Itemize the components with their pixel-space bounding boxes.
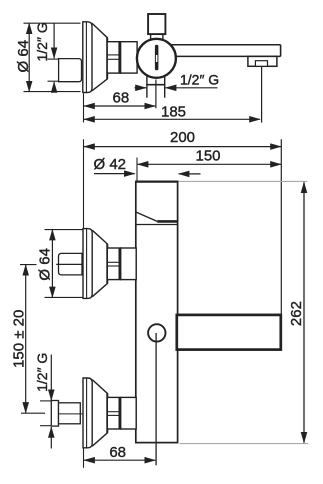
- svg-text:Ø 64: Ø 64: [36, 248, 53, 281]
- svg-text:150: 150: [195, 148, 220, 165]
- svg-text:1/2″ G: 1/2″ G: [34, 22, 50, 61]
- svg-text:Ø 64: Ø 64: [15, 40, 32, 73]
- svg-text:1/2″ G: 1/2″ G: [180, 72, 219, 88]
- svg-text:68: 68: [109, 444, 126, 461]
- svg-text:150 ± 20: 150 ± 20: [10, 310, 27, 368]
- svg-text:262: 262: [288, 301, 305, 326]
- svg-text:200: 200: [170, 129, 195, 146]
- svg-text:68: 68: [113, 89, 130, 106]
- svg-text:1/2″ G: 1/2″ G: [34, 353, 50, 392]
- svg-text:185: 185: [161, 104, 186, 121]
- svg-text:Ø 42: Ø 42: [94, 156, 127, 173]
